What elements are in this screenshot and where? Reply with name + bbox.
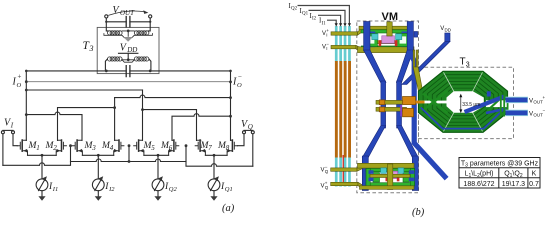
IO+ vertical (M1 drain) bbox=[25, 71, 27, 140]
green block left bbox=[365, 33, 378, 46]
secondary coil L2 left loops bbox=[108, 57, 123, 61]
leader wire I_Q2 bbox=[298, 6, 350, 25]
leader wires group bbox=[298, 6, 350, 25]
primary center tap wire bbox=[122, 31, 134, 36]
M2 drain vertical and line to M4 drain bbox=[58, 108, 115, 141]
svg-text:Q: Q bbox=[325, 185, 329, 190]
svg-text:2: 2 bbox=[53, 144, 57, 152]
svg-text:K: K bbox=[532, 171, 537, 178]
cyan pad right bbox=[396, 34, 402, 40]
blue pad in hole bbox=[487, 91, 491, 96]
primary center tap junction dot bbox=[127, 30, 130, 33]
bus orange mid section bbox=[335, 61, 351, 158]
svg-text:T3 parameters @39 GHz: T3 parameters @39 GHz bbox=[461, 160, 539, 168]
svg-text:3: 3 bbox=[89, 44, 94, 53]
blue V legs to neck bbox=[362, 33, 450, 191]
red line in bottom bus bbox=[343, 155, 344, 184]
blue vertical left bbox=[364, 22, 370, 52]
V_I port bbox=[3, 129, 13, 131]
capacitor C_tank plates bbox=[126, 66, 130, 77]
crossover X left bbox=[423, 91, 448, 113]
svg-text:Q1: Q1 bbox=[302, 12, 309, 17]
M5 drain vertical bbox=[142, 90, 144, 140]
V_I inner wire to M1 gate bbox=[13, 134, 17, 146]
orange pad hook upper bbox=[403, 97, 416, 105]
svg-text:−: − bbox=[543, 108, 546, 113]
svg-text:OUT: OUT bbox=[533, 100, 543, 105]
orange pad neck left bbox=[379, 97, 424, 117]
svg-text:VM: VM bbox=[382, 11, 399, 23]
svg-text:3: 3 bbox=[466, 62, 470, 69]
blue pad right bbox=[414, 32, 418, 38]
blue crossing diagonals bbox=[465, 97, 506, 113]
transistor M4 bbox=[114, 140, 124, 155]
primary coil L1 right loops bbox=[134, 31, 149, 35]
current source I_I2 bbox=[92, 155, 104, 201]
svg-text:OUT: OUT bbox=[120, 9, 135, 17]
red bar left bbox=[379, 40, 382, 46]
V_Q outer wire down bbox=[252, 134, 254, 166]
dimension arrow bbox=[459, 94, 462, 114]
magenta center bbox=[382, 36, 395, 43]
gate tie drop M2/M3 bbox=[70, 146, 72, 162]
khaki center vertical bbox=[387, 22, 392, 36]
V_OUT terminal right bbox=[149, 15, 152, 18]
svg-text:Q: Q bbox=[325, 169, 329, 174]
white left port gap bbox=[419, 101, 447, 104]
olive verticals right of cell bbox=[413, 50, 415, 69]
svg-text:OUT: OUT bbox=[533, 113, 543, 118]
secondary tap junction dot bbox=[127, 58, 130, 61]
blue inner stubs bbox=[370, 32, 376, 36]
svg-text:8: 8 bbox=[226, 144, 230, 152]
svg-text:DD: DD bbox=[126, 46, 137, 54]
svg-text:+: + bbox=[325, 180, 328, 185]
IO- vertical (M8 drain) bbox=[230, 71, 232, 140]
olive trace V_Q+ bbox=[331, 182, 358, 185]
blue vertical right bbox=[407, 22, 413, 52]
svg-text:Q: Q bbox=[248, 123, 253, 131]
VDD rail segment bbox=[119, 52, 138, 54]
svg-text:Q1: Q1 bbox=[225, 186, 233, 193]
orange pad hook lower bbox=[403, 108, 414, 117]
svg-text:T: T bbox=[460, 57, 466, 68]
current source I_Q2 bbox=[152, 155, 164, 201]
transistor M7 bbox=[195, 140, 205, 155]
current source I_I1 bbox=[36, 155, 48, 201]
transistor M5 bbox=[134, 140, 144, 155]
drain line y109.6: M5 to M7 bbox=[143, 110, 197, 141]
svg-text:I1: I1 bbox=[322, 21, 327, 26]
green frame bottom bar bbox=[366, 183, 415, 186]
V_I+ label bbox=[321, 28, 330, 190]
transformer T3 box bbox=[97, 27, 159, 73]
wire terminals down to primary bbox=[106, 22, 150, 31]
khaki wide top bar bbox=[358, 163, 415, 168]
bus cyan top section bbox=[335, 26, 351, 62]
top cell of VM bbox=[358, 22, 418, 53]
svg-text:4: 4 bbox=[110, 144, 114, 152]
svg-text:−: − bbox=[238, 73, 243, 81]
red bar right bbox=[395, 40, 398, 46]
primary coil L1 left loops bbox=[108, 31, 123, 35]
green small block right bbox=[403, 173, 410, 183]
khaki top bar bbox=[359, 26, 408, 29]
leader arrow tips bbox=[348, 23, 351, 26]
khaki center vertical bbox=[387, 164, 392, 190]
magenta center bbox=[387, 171, 397, 178]
crossover diagonal right bbox=[488, 98, 502, 111]
M6 drain vertical and line to IO- with hop at M7 drain bbox=[172, 114, 231, 141]
cyan pad left bbox=[381, 168, 387, 174]
svg-text:1: 1 bbox=[36, 144, 40, 152]
khaki mid bar bbox=[368, 41, 407, 44]
V_I outer wire down bbox=[2, 134, 4, 165]
secondary coil L2 right loops bbox=[134, 57, 149, 61]
leader wire I_I2 bbox=[318, 15, 341, 24]
pair2 source join bbox=[82, 154, 113, 156]
neck olive ties bbox=[376, 50, 424, 111]
svg-text:O: O bbox=[237, 82, 242, 89]
transistor M8 bbox=[227, 140, 237, 155]
main schematic wires bbox=[25, 21, 232, 141]
T3 transformer octagon body bbox=[419, 71, 508, 132]
T3 dashed box bbox=[419, 67, 514, 138]
blue inner stubs bottom cell bbox=[369, 170, 374, 174]
current source I_Q1 bbox=[208, 155, 220, 201]
svg-text:L1\L2(pH): L1\L2(pH) bbox=[465, 171, 494, 179]
thin green line bbox=[361, 46, 411, 47]
transistor M6 bbox=[169, 140, 179, 155]
input ports and common line bbox=[1, 130, 254, 166]
common return line with hops over tails bbox=[3, 159, 253, 166]
olive trace V_Q- bbox=[331, 168, 357, 171]
corner miter seams bbox=[444, 72, 483, 131]
V_Q port bbox=[244, 129, 253, 131]
svg-text:I: I bbox=[326, 46, 327, 51]
svg-text:3: 3 bbox=[91, 144, 96, 152]
svg-text:I: I bbox=[326, 33, 327, 38]
svg-text:5: 5 bbox=[151, 144, 155, 152]
gate tie drop M6/M7 bbox=[185, 146, 187, 162]
svg-text:I2: I2 bbox=[312, 16, 317, 21]
pair4 source join bbox=[205, 154, 227, 156]
svg-text:+: + bbox=[543, 95, 546, 100]
svg-text:Q2: Q2 bbox=[169, 186, 178, 193]
green small block left bbox=[373, 173, 380, 183]
khaki bottom bar bbox=[360, 186, 415, 190]
svg-text:−: − bbox=[326, 41, 329, 46]
V_OUT- trace bbox=[506, 110, 529, 116]
capacitor C_out plates bbox=[126, 17, 130, 28]
V_Q inner wire to M8 gate bbox=[238, 134, 245, 146]
AC ground arrow (primary tap) bbox=[124, 37, 132, 41]
rail2 y81.7 bbox=[26, 81, 230, 83]
svg-text:−: − bbox=[325, 164, 328, 169]
svg-text:188.6\272: 188.6\272 bbox=[463, 181, 494, 188]
purple bit bbox=[400, 105, 402, 116]
cyan pad right bbox=[398, 168, 404, 174]
VM dashed box bbox=[357, 21, 419, 193]
svg-text:+: + bbox=[17, 73, 22, 81]
red bar right bbox=[397, 175, 400, 182]
red bar left bbox=[386, 175, 389, 182]
olive trace V_I- bbox=[331, 45, 356, 48]
green block right bbox=[397, 33, 410, 46]
transistor M1 bbox=[17, 140, 27, 155]
octagon turn lines bbox=[423, 75, 503, 129]
svg-text:19\17.3: 19\17.3 bbox=[502, 181, 525, 188]
svg-text:33.5 μm: 33.5 μm bbox=[462, 102, 480, 108]
svg-text:6: 6 bbox=[169, 144, 173, 152]
svg-text:DD: DD bbox=[445, 27, 452, 32]
right port strips bbox=[501, 96, 508, 117]
VDD trace bbox=[445, 33, 450, 42]
bottom cell of VM bbox=[358, 163, 415, 189]
V_OUT arc arrow bbox=[109, 11, 146, 15]
junction dots bbox=[25, 21, 232, 118]
green frame top bar bbox=[366, 169, 415, 172]
drain line y97.6 to IO- with hop at M5 drain bbox=[115, 95, 231, 97]
svg-text:7: 7 bbox=[208, 144, 212, 152]
transistor M3 bbox=[72, 140, 82, 155]
primary baseline bracket bbox=[104, 34, 152, 38]
bus cyan bottom section bbox=[335, 158, 351, 187]
T3 parameters table bbox=[459, 158, 540, 189]
white right port gap bbox=[486, 100, 507, 107]
V_OUT+ label bbox=[529, 95, 546, 118]
green frame left vertical bbox=[366, 169, 370, 186]
svg-text:+: + bbox=[326, 28, 329, 33]
green bar bbox=[361, 30, 409, 33]
lambda legs bbox=[362, 126, 385, 158]
output rail IO+ / IO- with cap gap bbox=[26, 70, 230, 72]
svg-text:I1: I1 bbox=[52, 186, 58, 193]
secondary tap horizontal and dip bbox=[122, 60, 135, 62]
V_OUT terminal left bbox=[105, 15, 108, 18]
khaki mid bar bbox=[370, 174, 410, 177]
drain line y114.6: IO+ to M3 drain with hop at M2 drain bbox=[26, 112, 82, 140]
leader wire I_Q1 bbox=[309, 10, 346, 24]
drain line y90: IO+ to M5 drain bbox=[26, 89, 142, 91]
svg-text:O: O bbox=[17, 82, 22, 89]
svg-text:Q1\Q2: Q1\Q2 bbox=[504, 171, 523, 179]
gate tie drop M4/M5 bbox=[128, 146, 130, 162]
svg-text:Q2: Q2 bbox=[291, 7, 298, 12]
neck verticals bbox=[381, 81, 386, 128]
M4 drain vertical bbox=[114, 98, 116, 141]
cyan pad left bbox=[372, 34, 378, 40]
svg-text:(b): (b) bbox=[412, 207, 425, 218]
green frame right vertical bbox=[410, 169, 414, 186]
white center hole bbox=[447, 91, 484, 113]
T3 feed blue trace bbox=[410, 51, 447, 179]
pair1 source join bbox=[28, 154, 57, 156]
VDD stub to secondary tap bbox=[127, 53, 129, 60]
bottom cell blue verticals bbox=[362, 156, 368, 191]
svg-text:0.7: 0.7 bbox=[529, 181, 539, 188]
blue outer ring along bottom bbox=[421, 108, 506, 129]
V_OUT+ trace bbox=[506, 97, 529, 116]
khaki wide bottom bar bbox=[358, 47, 415, 53]
svg-text:(a): (a) bbox=[222, 203, 235, 214]
leader wire I_I1 bbox=[327, 20, 336, 24]
svg-text:I2: I2 bbox=[108, 186, 115, 193]
pair3 source join bbox=[144, 154, 169, 156]
secondary end stubs to output rail bbox=[105, 59, 150, 71]
wire top terminals to cap bbox=[106, 18, 150, 22]
olive trace V_I+ bbox=[331, 26, 367, 189]
transistor M2 bbox=[56, 140, 66, 155]
